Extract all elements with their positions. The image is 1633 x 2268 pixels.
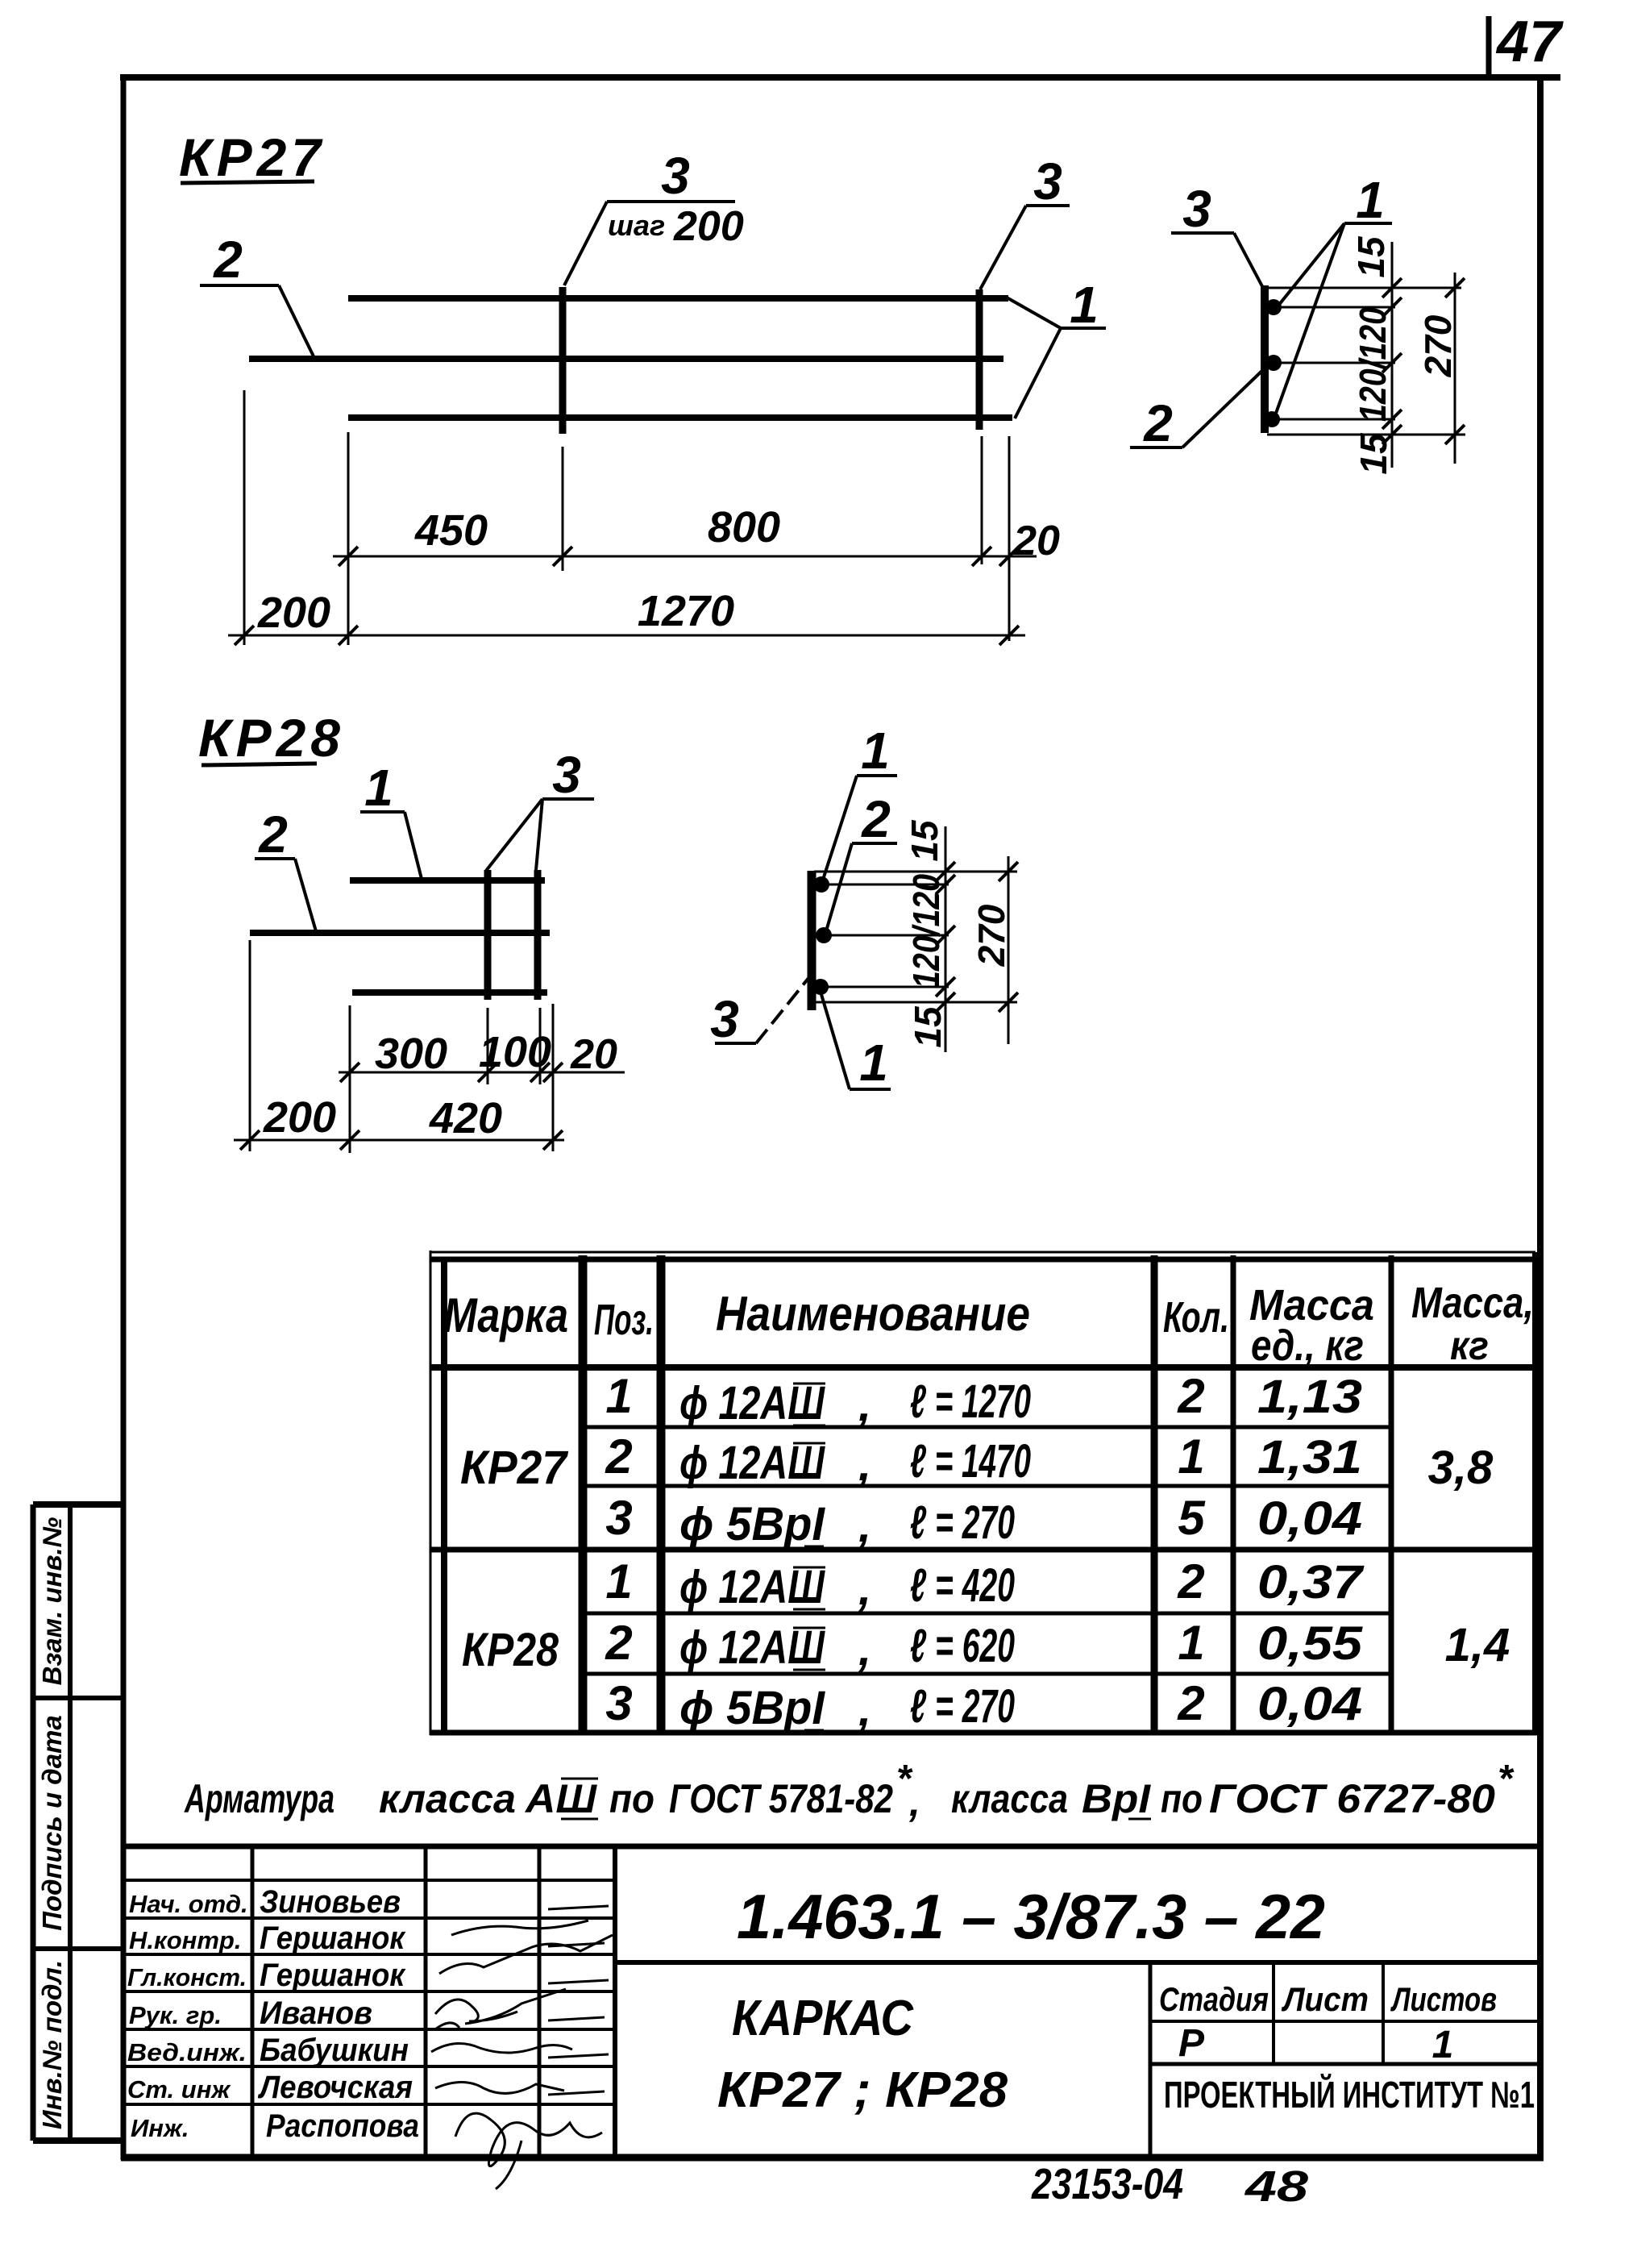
wire: KP27 top bar pos1 (348, 295, 1008, 302)
svg-text:23153-04: 23153-04 (1031, 2160, 1183, 2208)
svg-text:ℓ = 270: ℓ = 270 (910, 1496, 1015, 1549)
svg-text:5: 5 (1178, 1491, 1206, 1545)
svg-text:,: , (858, 1563, 871, 1615)
svg-text:1: 1 (861, 722, 890, 780)
svg-text:47: 47 (1495, 10, 1564, 74)
svg-text:кг: кг (1450, 1323, 1489, 1368)
svg-text:*: * (1498, 1758, 1515, 1800)
svg-text:ϕ 12АШ: ϕ 12АШ (679, 1437, 825, 1489)
svg-text:ГОСТ 6727-80: ГОСТ 6727-80 (1209, 1776, 1495, 1821)
svg-text:Рук. гр.: Рук. гр. (129, 2001, 222, 2029)
drawing frame right (1537, 77, 1544, 2160)
svg-text:2: 2 (258, 805, 288, 864)
node: title block row lines (125, 1879, 615, 1882)
node: leader 3 right (980, 206, 1070, 289)
node: KP28 leader 2 (255, 859, 316, 931)
wire: KP27 middle bar pos2 (249, 356, 1003, 362)
node: title block top line (123, 1844, 1538, 1850)
svg-text:Гершанок: Гершанок (260, 1921, 406, 1956)
svg-text:2: 2 (1177, 1554, 1204, 1608)
svg-text:1: 1 (1178, 1429, 1204, 1484)
svg-text:120/120: 120/120 (1352, 307, 1394, 422)
svg-text:,: , (858, 1438, 871, 1491)
svg-text:1: 1 (1070, 276, 1099, 334)
svg-text:450: 450 (414, 506, 488, 555)
node: KP27 dimension line 200/1270 (228, 626, 1025, 645)
svg-text:Распопова: Распопова (266, 2108, 419, 2144)
svg-text:Гершанок: Гершанок (260, 1958, 406, 1993)
svg-text:3: 3 (710, 990, 739, 1048)
svg-text:270: 270 (970, 904, 1012, 967)
svg-text:300: 300 (375, 1030, 447, 1078)
svg-text:Поз.: Поз. (594, 1296, 654, 1344)
node: leader 1 right (1007, 298, 1106, 418)
node: section dim 270 (999, 856, 1018, 1044)
svg-text:3: 3 (605, 1491, 632, 1545)
node: section leader 1 bottom (821, 992, 891, 1089)
svg-text:КАРКАС: КАРКАС (732, 1991, 914, 2046)
svg-text:,: , (858, 1683, 871, 1736)
svg-text:шаг: шаг (608, 209, 665, 242)
svg-text:Стадия: Стадия (1159, 1980, 1269, 2018)
svg-text:ϕ 5ВрI: ϕ 5ВрI (679, 1682, 826, 1734)
node: bar dot pos1 top (813, 876, 829, 893)
svg-text:100: 100 (479, 1028, 551, 1076)
node: KP28 leader 1 (360, 812, 422, 879)
node: table row lines (583, 1425, 1391, 1429)
sheet number tick (1486, 16, 1492, 78)
svg-text:15: 15 (904, 819, 945, 862)
node: leader 2 (200, 285, 314, 358)
svg-text:ϕ 12АШ: ϕ 12АШ (679, 1621, 825, 1674)
svg-text:Нач. отд.: Нач. отд. (129, 1890, 248, 1918)
svg-text:Марка: Марка (443, 1288, 568, 1342)
svg-text:Инв.№ подл.: Инв.№ подл. (37, 1960, 67, 2129)
svg-text:1: 1 (605, 1369, 632, 1423)
svg-text:Листов: Листов (1390, 1980, 1497, 2018)
svg-text:ℓ = 1470: ℓ = 1470 (910, 1435, 1031, 1488)
node: title block right part lines (615, 1960, 1538, 1965)
wire: KP28 top bar pos1 (350, 877, 545, 884)
wire: KP27 bottom bar pos1 (348, 414, 1012, 421)
svg-text:15: 15 (1353, 432, 1394, 475)
svg-text:ℓ = 1270: ℓ = 1270 (910, 1375, 1031, 1428)
node: section dim 15/120/120/15 (1382, 242, 1402, 468)
node: KP28 leader 3 (486, 799, 594, 871)
node: section leader 1 top (822, 776, 897, 882)
wire: KP27 cross wire pos3 right (976, 289, 983, 430)
svg-text:120/120: 120/120 (905, 874, 947, 988)
node: bar dot pos1 bottom (812, 979, 829, 995)
svg-text:Вед.инж.: Вед.инж. (127, 2038, 247, 2066)
svg-text:1: 1 (1356, 171, 1385, 229)
svg-text:200: 200 (673, 203, 744, 250)
svg-text:Р: Р (1178, 2022, 1205, 2065)
svg-text:800: 800 (708, 503, 780, 551)
wire: section tie lines (814, 872, 1017, 1002)
svg-text:Арматура: Арматура (184, 1776, 334, 1821)
svg-text:класса: класса (379, 1776, 516, 1821)
svg-text:,: , (858, 1623, 871, 1675)
svg-text:ГОСТ 5781-82: ГОСТ 5781-82 (669, 1776, 893, 1821)
svg-text:20: 20 (570, 1031, 617, 1078)
svg-text:ℓ = 620: ℓ = 620 (910, 1620, 1015, 1672)
svg-text:ℓ = 420: ℓ = 420 (910, 1559, 1015, 1612)
svg-text:200: 200 (257, 589, 330, 637)
svg-text:0,04: 0,04 (1257, 1678, 1362, 1730)
svg-text:Взам. инв.№: Взам. инв.№ (37, 1517, 67, 1685)
svg-text:1: 1 (364, 759, 393, 817)
svg-text:2: 2 (861, 790, 891, 848)
node: KP28 dimension line 300/100/20 (339, 1063, 625, 1082)
svg-text:Н.контр.: Н.контр. (129, 1926, 242, 1954)
node: bar dot pos2 middle (1265, 355, 1282, 371)
node: class bars in note (561, 1779, 1151, 1819)
wire: KP27 cross wire pos3 left (559, 287, 567, 434)
drawing frame top (120, 74, 1560, 81)
svg-text:КР28: КР28 (198, 708, 345, 768)
node: section leader 2 (825, 843, 897, 934)
svg-text:3: 3 (661, 147, 690, 205)
svg-text:АШ: АШ (524, 1776, 597, 1821)
svg-text:ϕ 12АШ: ϕ 12АШ (679, 1377, 825, 1429)
svg-text:1,4: 1,4 (1445, 1619, 1510, 1671)
svg-text:1: 1 (859, 1034, 888, 1092)
svg-text:КР27: КР27 (179, 127, 326, 187)
node: leader 3 (шаг 200) (564, 202, 735, 285)
svg-text:1,13: 1,13 (1257, 1371, 1362, 1423)
node: bar dot pos1 bottom (1264, 411, 1280, 427)
svg-text:0,37: 0,37 (1257, 1556, 1365, 1608)
node: KP28 title (198, 708, 345, 768)
svg-text:Кол.: Кол. (1163, 1293, 1229, 1342)
node: title block verticals (251, 1846, 255, 2158)
svg-text:КР27: КР27 (460, 1442, 569, 1494)
svg-text:Иванов: Иванов (260, 1995, 372, 2031)
node: strip outer (33, 1501, 123, 1508)
drawing frame left (121, 74, 127, 2160)
node: bar dot pos1 top (1265, 299, 1282, 315)
wire: KP28 cross wire pos3 first (484, 870, 492, 1000)
svg-text:Наименование: Наименование (716, 1287, 1030, 1341)
svg-text:420: 420 (429, 1094, 502, 1142)
svg-text:ϕ 12АШ: ϕ 12АШ (679, 1561, 825, 1613)
wire: KP28 cross wire pos3 second (534, 870, 542, 1000)
svg-text:Бабушкин: Бабушкин (260, 2033, 409, 2068)
svg-text:Зиновьев: Зиновьев (260, 1884, 401, 1920)
svg-text:0,04: 0,04 (1257, 1492, 1362, 1545)
wire: KP28 middle bar pos2 (250, 930, 550, 936)
svg-text:ПРОЕКТНЫЙ ИНСТИТУТ №1: ПРОЕКТНЫЙ ИНСТИТУТ №1 (1164, 2074, 1535, 2116)
node: table column lines (579, 1255, 588, 1733)
svg-text:ϕ 5ВрI: ϕ 5ВрI (679, 1498, 826, 1550)
svg-text:3: 3 (605, 1676, 632, 1730)
node: strip dividers (33, 1696, 123, 1700)
svg-text:15: 15 (1350, 235, 1392, 278)
svg-text:Подпись и дата: Подпись и дата (37, 1715, 67, 1931)
svg-text:48: 48 (1244, 2162, 1308, 2211)
svg-text:,: , (858, 1379, 871, 1431)
svg-text:Лист: Лист (1281, 1980, 1369, 2018)
svg-text:3: 3 (1182, 180, 1211, 238)
svg-text:1: 1 (605, 1554, 632, 1608)
node: section leader 2 (1130, 364, 1269, 447)
wire: section wire pos3 (1261, 285, 1269, 433)
wire: KP28 extension lines (250, 940, 553, 1153)
svg-text:класса: класса (951, 1776, 1068, 1821)
svg-text:0,55: 0,55 (1257, 1617, 1363, 1670)
svg-text:ед., кг: ед., кг (1251, 1321, 1364, 1370)
node: KP28 dimension line 200/420 (234, 1130, 564, 1150)
node: table outer border (430, 1251, 1535, 1254)
svg-text:Масса,: Масса, (1411, 1279, 1534, 1327)
svg-text:ВрI: ВрI (1082, 1776, 1151, 1821)
wire: section wire pos3 (808, 871, 816, 1010)
wire: KP28 bottom bar pos1 (352, 989, 547, 996)
svg-text:,: , (858, 1500, 871, 1552)
node: KP27 title (179, 127, 326, 187)
node: date column dashes (548, 1906, 609, 2095)
node: section leader 1 (1274, 223, 1392, 418)
svg-text:по: по (1161, 1776, 1203, 1821)
svg-text:Ст. инж: Ст. инж (127, 2075, 231, 2104)
node: class III bar marks in table (793, 1384, 825, 1730)
wire: section tie lines (1267, 288, 1465, 435)
node: section dim 15/120/120/15 (936, 826, 955, 1052)
svg-text:3: 3 (552, 746, 581, 804)
svg-text:2: 2 (1143, 394, 1173, 452)
svg-text:20: 20 (1012, 518, 1060, 564)
svg-text:15: 15 (907, 1005, 949, 1048)
svg-text:1,31: 1,31 (1257, 1431, 1362, 1484)
node: table header bottom line (430, 1364, 1535, 1371)
svg-text:ℓ = 270: ℓ = 270 (910, 1680, 1015, 1733)
svg-text:200: 200 (263, 1093, 336, 1142)
svg-text:1270: 1270 (638, 587, 734, 635)
wire: KP27 extension lines (244, 390, 1009, 645)
svg-text:1: 1 (1178, 1616, 1204, 1670)
svg-text:2: 2 (605, 1616, 632, 1670)
node: signatures scribbles (431, 1921, 613, 2189)
svg-text:1: 1 (1432, 2024, 1454, 2066)
svg-text:1.463.1 – 3/87.3 – 22: 1.463.1 – 3/87.3 – 22 (737, 1881, 1325, 1952)
svg-text:3: 3 (1033, 152, 1062, 210)
node: KP27 dimension line 450/800/20 (333, 547, 1037, 566)
svg-text:Инж.: Инж. (131, 2114, 189, 2142)
svg-text:Левочская: Левочская (257, 2070, 413, 2105)
node: section leader 3 (1171, 233, 1263, 288)
node: section leader 3 (715, 977, 809, 1043)
node: section dim 270 (1445, 273, 1465, 464)
svg-text:2: 2 (605, 1429, 632, 1484)
svg-text:270: 270 (1417, 314, 1459, 377)
svg-text:2: 2 (1177, 1369, 1204, 1423)
svg-text:КР27 ; КР28: КР27 ; КР28 (717, 2062, 1008, 2118)
svg-text:2: 2 (213, 231, 243, 289)
svg-text:,: , (908, 1779, 920, 1825)
svg-text:КР28: КР28 (462, 1624, 559, 1676)
svg-text:Гл.конст.: Гл.конст. (127, 1963, 247, 1991)
drawing frame bottom (121, 2154, 1544, 2162)
svg-text:3,8: 3,8 (1428, 1442, 1494, 1494)
svg-text:2: 2 (1177, 1676, 1204, 1730)
node: bar dot pos2 middle (816, 927, 832, 943)
svg-text:по: по (609, 1776, 654, 1821)
node: strip divider vertical (68, 1504, 73, 2141)
